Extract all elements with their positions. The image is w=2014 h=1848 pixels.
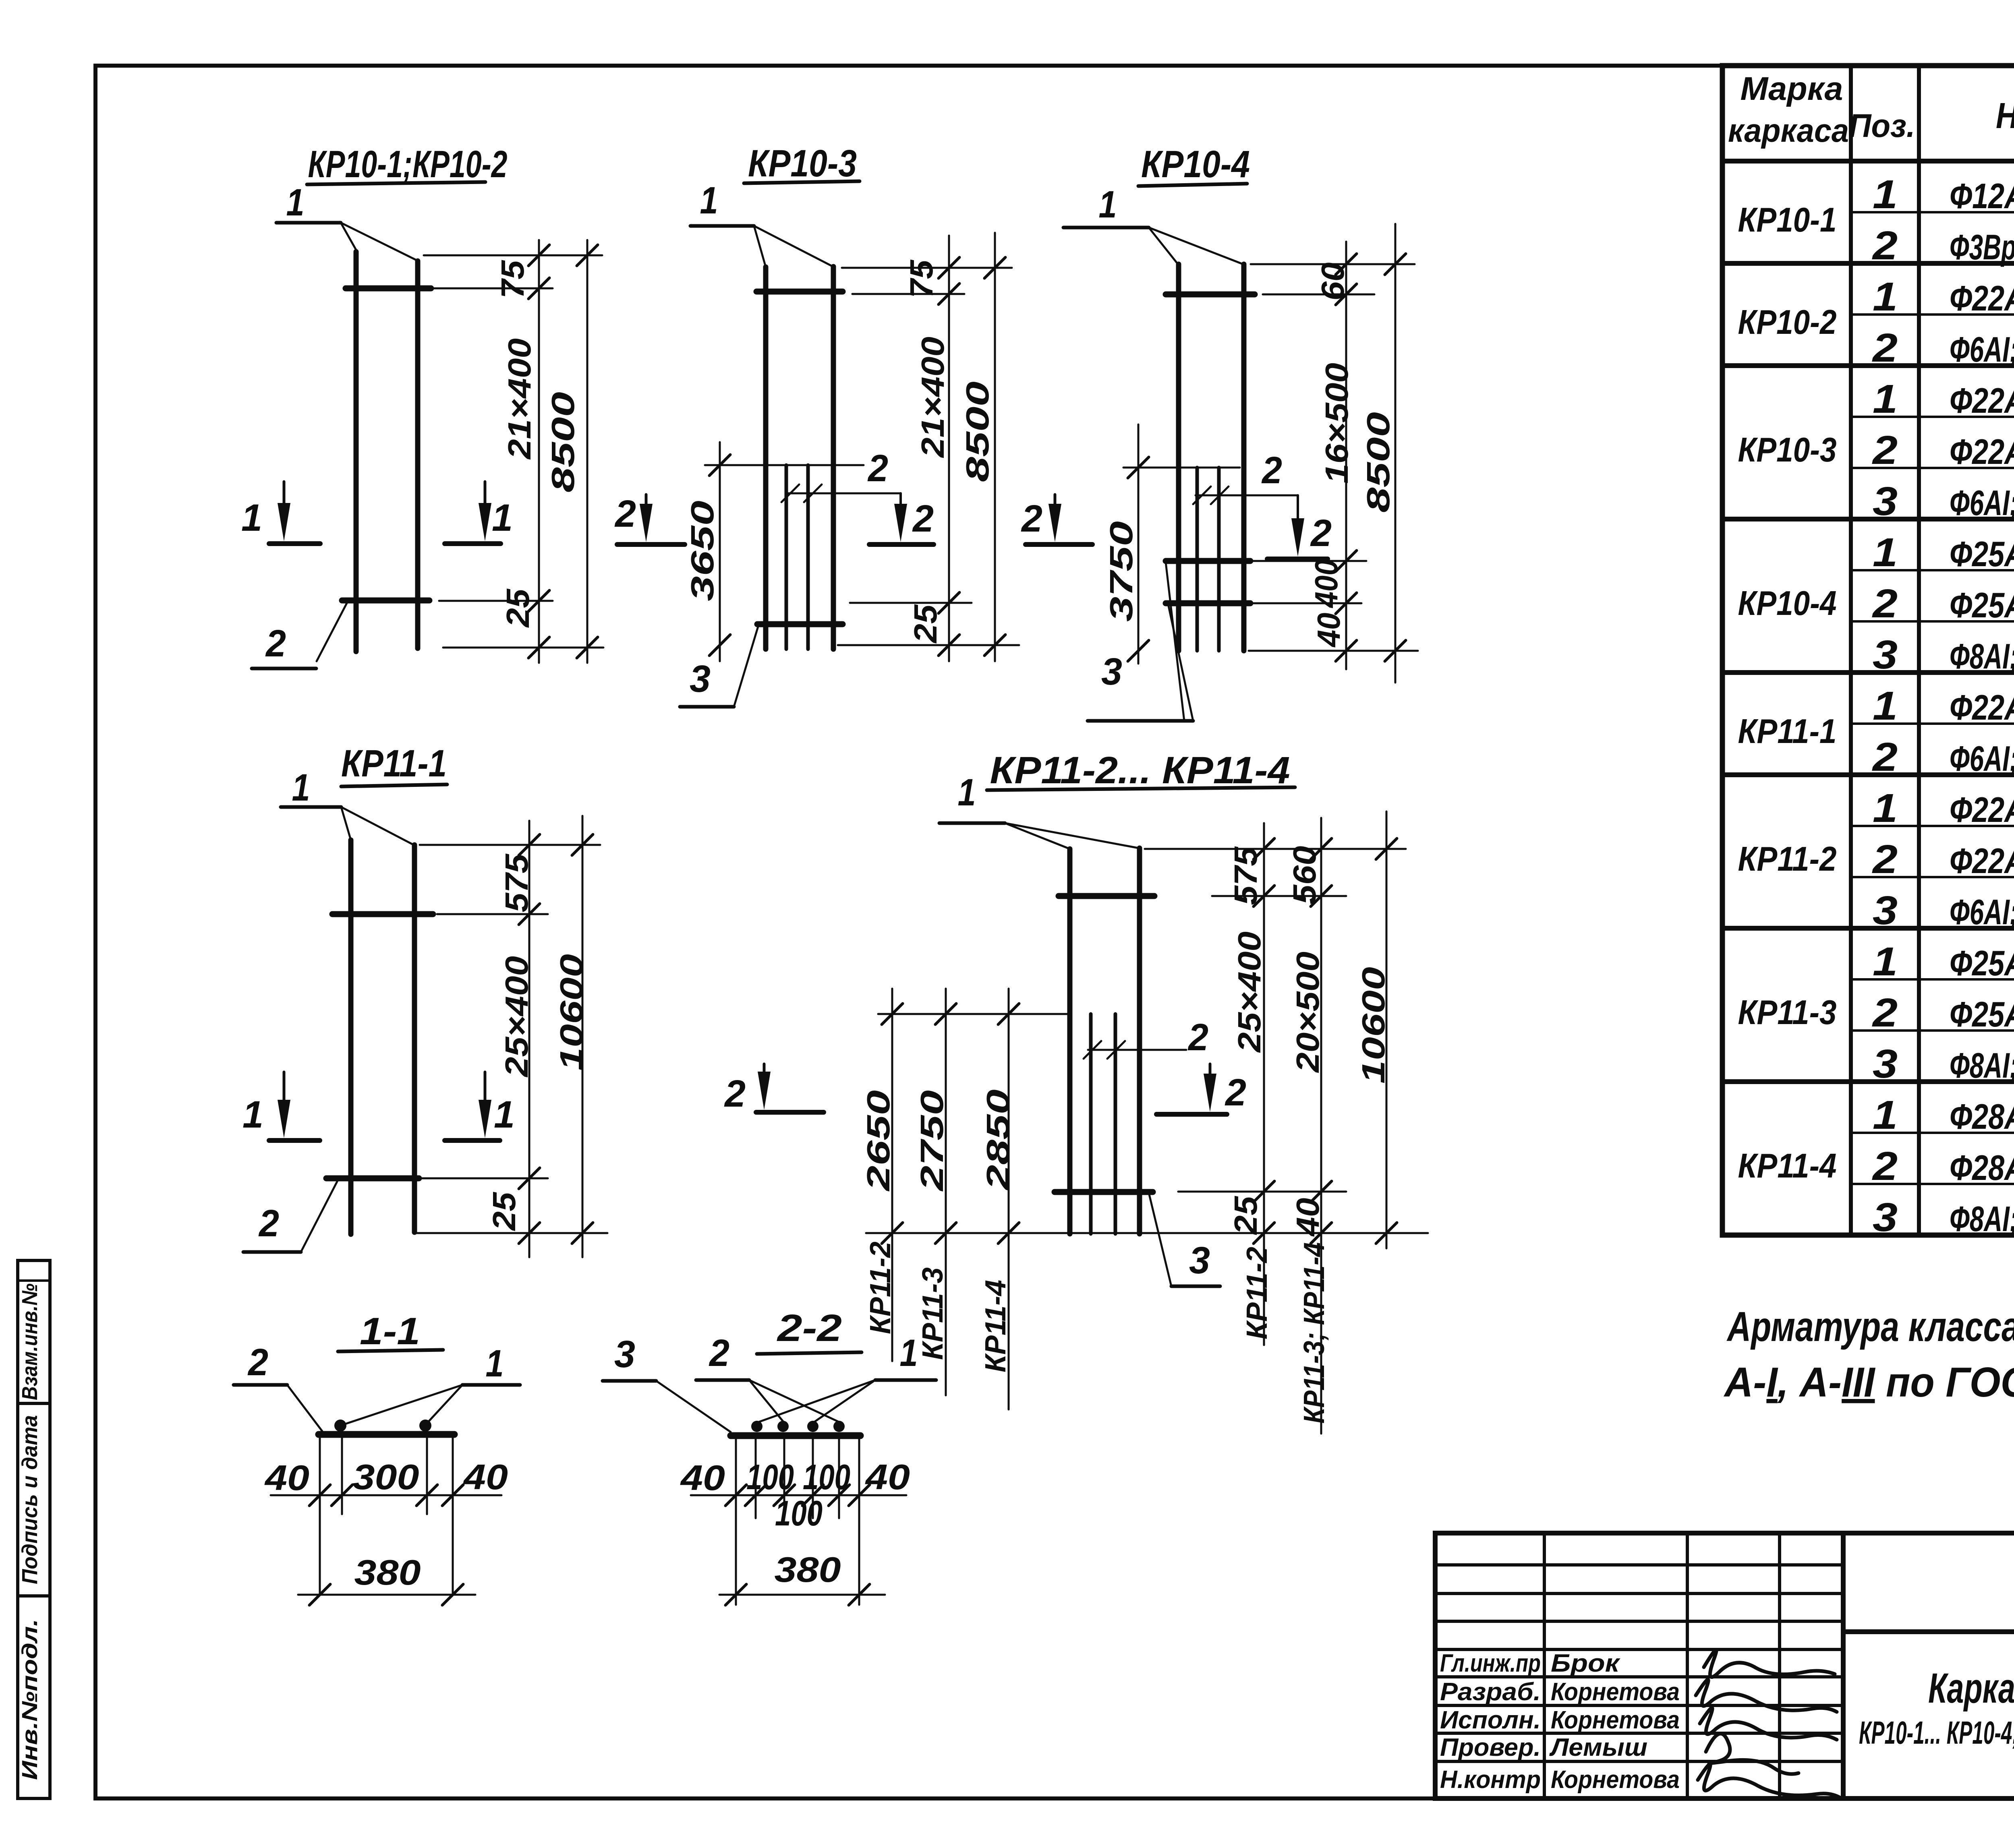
KR11-2 top crossbar pos3: [1059, 893, 1154, 899]
2-2 leader 1 line: [875, 1378, 936, 1382]
table row line: [1851, 313, 2014, 316]
svg-text:2: 2: [265, 622, 286, 665]
KR11-2 dim line 20x500: [1320, 818, 1322, 1434]
svg-text:КР10-4: КР10-4: [1738, 584, 1837, 623]
svg-text:2: 2: [1021, 497, 1042, 540]
KR10-4 top extensions: [1251, 263, 1415, 265]
svg-text:Ф28АIII;: Ф28АIII;: [1950, 1097, 2014, 1136]
KR10-3 pos2 leader line: [785, 493, 901, 495]
svg-text:Ф22АIII;: Ф22АIII;: [1950, 790, 2014, 830]
KR11-1 right bar pos1: [412, 845, 417, 1232]
1-1 dim line 40 300 40: [271, 1494, 501, 1496]
svg-text:Н.контр: Н.контр: [1440, 1766, 1541, 1794]
KR10-4 dim line 3750: [1138, 424, 1140, 664]
svg-text:21×400: 21×400: [501, 338, 537, 460]
svg-text:2: 2: [1872, 428, 1898, 473]
svg-text:1: 1: [492, 497, 513, 539]
svg-text:60: 60: [1315, 263, 1351, 301]
KR11-2 bottom extension long: [866, 1232, 1428, 1234]
KR11-1 leader 2 line: [243, 1250, 301, 1254]
section marker arrow: [283, 1072, 286, 1102]
svg-text:3: 3: [614, 1333, 635, 1376]
svg-text:КР11-4: КР11-4: [1738, 1147, 1837, 1185]
svg-text:КР11-3; КР11-4: КР11-3; КР11-4: [1298, 1242, 1330, 1424]
svg-text:3: 3: [1873, 1195, 1898, 1240]
table group separator: [1722, 772, 2014, 777]
svg-text:3: 3: [1873, 479, 1898, 524]
svg-text:Инв.№подл.: Инв.№подл.: [18, 1619, 42, 1780]
svg-text:Поз.: Поз.: [1849, 108, 1915, 144]
KR11-2 top right extension: [1145, 848, 1406, 850]
svg-text:Ф22АIII;: Ф22АIII;: [1950, 687, 2014, 727]
svg-text:1: 1: [241, 497, 262, 539]
svg-text:2: 2: [1872, 325, 1898, 370]
KR10-4 leader 1 diagonals: [1149, 228, 1179, 265]
svg-text:1: 1: [242, 1093, 263, 1136]
svg-text:3: 3: [1873, 1041, 1898, 1086]
section 2-2 underline: [757, 1352, 862, 1354]
table row line: [1851, 211, 2014, 213]
svg-text:75: 75: [495, 260, 530, 299]
2-2 dim line 380: [719, 1594, 885, 1596]
svg-text:10600: 10600: [553, 954, 589, 1071]
svg-text:КР10-2: КР10-2: [1738, 303, 1837, 341]
svg-text:Гл.инж.пр: Гл.инж.пр: [1440, 1649, 1541, 1677]
KR10-4 section 2 marker internal: [1297, 495, 1299, 520]
svg-text:Ф22АIII;: Ф22АIII;: [1950, 432, 2014, 472]
table outer border: [1722, 66, 2014, 1235]
2-2 extension verticals: [735, 1439, 737, 1605]
1-1 leader 2 line: [234, 1383, 287, 1387]
svg-text:1: 1: [700, 179, 718, 222]
table group separator: [1722, 1079, 2014, 1084]
svg-text:40: 40: [264, 1458, 309, 1498]
KR10-3 dim line 8500: [994, 233, 996, 661]
svg-text:Ф6АI;: Ф6АI;: [1950, 483, 2014, 523]
svg-text:400: 400: [1308, 559, 1344, 608]
svg-text:2: 2: [247, 1341, 268, 1384]
KR11-1 leader 1 diagonals: [341, 807, 351, 840]
KR10-1 dim ticks: [528, 245, 549, 266]
title block thick divider: [1841, 1533, 1846, 1798]
section marker line: [617, 542, 685, 547]
1-1 leader 2 diagonal: [287, 1385, 322, 1431]
KR11-2 pos2 leader line: [1088, 1049, 1186, 1051]
KR11-2 pos2 bar a: [1089, 1014, 1093, 1234]
KR11-2 left dim line 2650: [891, 989, 893, 1361]
svg-text:21×400: 21×400: [915, 337, 951, 458]
svg-text:1-1: 1-1: [360, 1310, 420, 1353]
svg-text:2850: 2850: [980, 1089, 1016, 1191]
svg-text:25: 25: [1228, 1196, 1264, 1235]
svg-text:КР11-2: КР11-2: [864, 1242, 897, 1334]
svg-text:Исполн.: Исполн.: [1440, 1706, 1541, 1734]
section 1-1 underline: [338, 1350, 443, 1351]
KR10-3 title underline: [744, 181, 860, 183]
KR11-1 dim line 10600: [582, 816, 584, 1257]
KR11-2 pos2 bar b: [1114, 1014, 1117, 1234]
table group separator: [1722, 926, 2014, 931]
2-2 crossbar pos3: [731, 1432, 860, 1439]
KR11-2 title underline: [987, 787, 1295, 790]
KR10-4 mesh top extension: [1123, 467, 1240, 469]
KR11-2 leader 3 line: [1171, 1285, 1220, 1288]
table group separator: [1722, 363, 2014, 368]
KR11-2 leader 1 line: [939, 822, 1005, 825]
svg-text:каркаса: каркаса: [1728, 112, 1849, 149]
svg-text:1: 1: [1873, 786, 1898, 831]
strip divider: [18, 1594, 50, 1598]
svg-text:Ф22АIII;: Ф22АIII;: [1950, 278, 2014, 318]
2-2 leader 3 diagonal: [656, 1381, 731, 1432]
table column lines: [1849, 66, 1853, 1235]
svg-text:25: 25: [500, 588, 536, 628]
svg-text:КР11-2... КР11-4: КР11-2... КР11-4: [990, 749, 1290, 792]
svg-text:2: 2: [1872, 735, 1898, 780]
svg-text:Ф8АI;: Ф8АI;: [1950, 1199, 2014, 1239]
KR10-1 title underline: [307, 182, 485, 184]
section marker arrow: [899, 506, 902, 508]
KR10-3 leader 3 line: [680, 705, 734, 709]
KR10-3 dim line 21x400: [948, 236, 950, 661]
svg-text:2: 2: [912, 497, 934, 540]
KR10-3 left bar pos1: [763, 267, 769, 649]
title block horizontal thick: [1843, 1629, 2014, 1634]
KR10-4 bottom crossbar 2 pos3: [1166, 600, 1250, 606]
svg-text:Ф25АIII;: Ф25АIII;: [1950, 994, 2014, 1034]
KR10-4 pos2 leader line: [1196, 495, 1298, 497]
KR10-1 leader 1 line: [276, 221, 341, 225]
section marker line: [445, 541, 501, 546]
svg-text:А-I, А-III по ГОСТ5781-82*: А-I, А-III по ГОСТ5781-82*: [1723, 1359, 2014, 1406]
section marker line: [1026, 542, 1092, 547]
KR11-2 left bar pos1: [1067, 849, 1073, 1234]
KR10-3 leader 3 diagonal: [734, 627, 758, 707]
table row line: [1851, 876, 2014, 878]
svg-text:380: 380: [354, 1552, 421, 1592]
KR11-1 bottom crossbar pos2: [326, 1175, 419, 1182]
svg-text:100: 100: [775, 1493, 823, 1533]
KR10-4 leader 3 diagonals: [1168, 604, 1193, 721]
svg-text:1: 1: [1873, 377, 1898, 422]
KR10-3 bottom crossbar pos3: [757, 621, 843, 627]
svg-text:380: 380: [775, 1550, 841, 1589]
table row line: [1851, 1029, 2014, 1032]
svg-text:Арматура класса Вр-I по ГОСТ6: Арматура класса Вр-I по ГОСТ6727-80*,: [1726, 1304, 2014, 1350]
section marker arrow: [484, 482, 487, 505]
table row line: [1851, 416, 2014, 418]
svg-text:КР11-1: КР11-1: [341, 742, 447, 785]
svg-text:16×500: 16×500: [1319, 363, 1355, 484]
KR10-3 section 2 marker internal: [899, 493, 902, 508]
KR11-2 dim line 10600: [1386, 811, 1388, 1248]
2-2 dim line 40 100 100 40: [691, 1494, 906, 1496]
KR10-4 left bar pos1: [1176, 264, 1181, 651]
table header bottom line: [1722, 159, 2014, 163]
KR10-1 leader 2 line: [252, 667, 316, 670]
KR10-1 dim line 8500: [586, 240, 588, 663]
KR10-1 dim line 21x400: [538, 240, 540, 663]
svg-text:1: 1: [494, 1093, 515, 1136]
svg-text:Разраб.: Разраб.: [1440, 1678, 1541, 1706]
svg-text:КР11-1: КР11-1: [1738, 712, 1837, 751]
2-2 leader 2 diagonals: [749, 1380, 784, 1422]
svg-text:1: 1: [1873, 530, 1898, 575]
svg-text:10600: 10600: [1355, 967, 1391, 1084]
1-1 dim line 380: [298, 1594, 475, 1596]
svg-text:2650: 2650: [860, 1090, 896, 1192]
svg-text:2: 2: [867, 447, 888, 490]
2-2 bar dot 2: [777, 1421, 789, 1432]
KR10-3 top extensions: [842, 267, 1012, 269]
2-2 leader 2 line: [696, 1378, 749, 1382]
svg-text:300: 300: [353, 1457, 419, 1497]
KR11-1 top crossbar pos2: [332, 911, 433, 917]
KR10-4 leader 1 line: [1063, 226, 1149, 230]
KR10-3 pos2 bar a: [785, 465, 788, 649]
svg-text:КР10-4: КР10-4: [1141, 143, 1250, 186]
svg-text:575: 575: [499, 853, 535, 913]
title block rows (left): [1435, 1563, 1843, 1567]
svg-text:КР11-3: КР11-3: [917, 1267, 949, 1360]
svg-text:КР10-3: КР10-3: [1738, 431, 1837, 469]
svg-text:Корнетова: Корнетова: [1551, 1706, 1680, 1734]
KR10-4 bottom extensions: [1254, 560, 1366, 562]
section marker line: [1267, 557, 1328, 561]
KR11-1 extension lines: [420, 844, 600, 846]
section marker arrow: [484, 1072, 487, 1102]
KR11-2 dim line 25x400: [1263, 823, 1265, 1345]
table group separator: [1722, 517, 2014, 521]
KR10-4 dim line 16x500: [1345, 242, 1347, 669]
KR11-1 leader 2 diagonal: [301, 1181, 338, 1252]
1-1 crossbar pos2: [319, 1431, 454, 1438]
svg-text:3: 3: [1873, 888, 1898, 933]
section marker arrow: [283, 482, 286, 505]
svg-text:1: 1: [286, 181, 305, 224]
KR10-3 leader 1 line: [690, 224, 754, 228]
KR10-3 bottom extensions: [850, 602, 972, 604]
svg-text:Марка: Марка: [1740, 70, 1843, 107]
svg-text:2750: 2750: [914, 1090, 950, 1192]
svg-text:Каркас плоский: Каркас плоский: [1928, 1665, 2014, 1712]
svg-text:25: 25: [908, 604, 943, 644]
svg-text:20×500: 20×500: [1290, 952, 1326, 1073]
svg-text:Корнетова: Корнетова: [1551, 1678, 1680, 1706]
KR11-2 crossbar extension: [1212, 895, 1346, 897]
svg-text:1: 1: [900, 1332, 918, 1374]
svg-text:Наименование: Наименование: [1996, 96, 2014, 136]
svg-text:40: 40: [865, 1457, 910, 1497]
section marker arrow: [1297, 520, 1299, 521]
strip divider: [18, 1402, 50, 1405]
svg-text:2: 2: [709, 1332, 729, 1374]
svg-text:1: 1: [1873, 939, 1898, 984]
KR10-4 pos2 bar a: [1196, 468, 1199, 651]
table group separator: [1722, 670, 2014, 675]
svg-text:Лемыш: Лемыш: [1549, 1734, 1647, 1761]
svg-text:2: 2: [724, 1072, 746, 1115]
section marker arrow: [1054, 495, 1057, 506]
2-2 bar dot 1: [751, 1421, 763, 1432]
svg-text:3: 3: [1189, 1239, 1210, 1282]
KR10-1 leader 2 diagonal: [317, 601, 348, 661]
svg-text:Ф6АI;: Ф6АI;: [1950, 329, 2014, 369]
2-2 bar dot 3: [807, 1421, 818, 1432]
svg-text:2: 2: [258, 1202, 279, 1245]
svg-text:1: 1: [1873, 683, 1898, 728]
svg-text:8500: 8500: [1360, 412, 1396, 513]
svg-text:Ф25АIII;: Ф25АIII;: [1950, 943, 2014, 983]
svg-text:Ф22АIII;: Ф22АIII;: [1950, 841, 2014, 881]
svg-text:Ф12АIII;: Ф12АIII;: [1950, 176, 2014, 216]
svg-text:2: 2: [1187, 1016, 1208, 1059]
KR10-4 title underline: [1138, 184, 1247, 186]
svg-text:1: 1: [1873, 1093, 1898, 1138]
KR10-3 dim line 3650: [719, 442, 721, 661]
KR10-1 top crossbar pos2: [346, 286, 431, 292]
2-2 leader 1 diagonals: [758, 1380, 875, 1422]
svg-text:2: 2: [614, 493, 636, 535]
KR11-1 dim line 25x400: [528, 821, 530, 1257]
KR10-3 mesh top extension: [705, 464, 864, 466]
table row line: [1851, 978, 2014, 981]
svg-text:2: 2: [1872, 223, 1898, 268]
svg-text:2: 2: [1225, 1071, 1246, 1114]
section marker arrow: [645, 495, 648, 506]
svg-text:40: 40: [1311, 613, 1347, 648]
svg-text:3: 3: [1873, 632, 1898, 677]
KR10-3 pos2 bar b: [806, 465, 810, 649]
KR10-4 top crossbar pos3: [1166, 292, 1255, 298]
table row line: [1851, 569, 2014, 571]
signature squiggles: [1704, 1650, 1835, 1677]
svg-text:25×400: 25×400: [1231, 931, 1267, 1053]
svg-text:2: 2: [1872, 837, 1898, 882]
KR10-4 leader 3 line: [1088, 719, 1193, 723]
svg-text:2: 2: [1310, 512, 1332, 555]
section marker line: [869, 542, 934, 547]
svg-text:КР10-1... КР10-4;КР11-1... КР1: КР10-1... КР10-4;КР11-1... КР11-4: [1859, 1715, 2014, 1751]
svg-text:40: 40: [463, 1457, 508, 1497]
svg-text:3650: 3650: [684, 501, 720, 601]
svg-text:Ф8АI;: Ф8АI;: [1950, 1045, 2014, 1085]
1-1 bar dot pos1 right: [419, 1420, 431, 1432]
svg-text:560: 560: [1287, 846, 1322, 904]
svg-text:Ф3ВрI;: Ф3ВрI;: [1950, 227, 2014, 267]
svg-text:КР11-2: КР11-2: [1241, 1247, 1273, 1339]
svg-text:Корнетова: Корнетова: [1551, 1766, 1680, 1794]
svg-text:25×400: 25×400: [499, 956, 535, 1078]
svg-text:2: 2: [1872, 990, 1898, 1035]
svg-text:Ф25АIII;: Ф25АIII;: [1950, 534, 2014, 574]
svg-text:100: 100: [746, 1457, 794, 1497]
svg-text:8500: 8500: [959, 381, 995, 482]
left margin strip: [18, 1260, 50, 1798]
svg-text:1: 1: [1873, 172, 1898, 217]
KR10-4 right bar pos1: [1241, 264, 1247, 651]
svg-text:40: 40: [680, 1458, 725, 1498]
svg-text:КР10-1;КР10-2: КР10-1;КР10-2: [308, 143, 508, 186]
KR11-2 right bar pos1: [1137, 848, 1142, 1234]
svg-text:1: 1: [1099, 183, 1117, 226]
section marker arrow: [1209, 1064, 1212, 1076]
svg-text:Ф22АIII;: Ф22АIII;: [1950, 381, 2014, 420]
table row line: [1851, 620, 2014, 623]
title block verticals left part: [1543, 1533, 1546, 1798]
svg-text:2: 2: [1261, 449, 1282, 492]
KR10-3 top crossbar pos3: [756, 289, 843, 295]
svg-text:3: 3: [1101, 650, 1122, 693]
section marker line: [1156, 1112, 1227, 1117]
svg-text:Подпись и дата: Подпись и дата: [18, 1415, 42, 1584]
svg-text:1: 1: [1873, 274, 1898, 319]
table group separator: [1722, 261, 2014, 266]
KR11-2 left dim line 2850: [1008, 989, 1010, 1409]
KR11-2 leader 1 diagonals: [1005, 823, 1070, 849]
KR10-1 extension lines: [424, 255, 602, 257]
KR11-2 bottom crossbar extension: [1178, 1191, 1346, 1193]
KR11-2 leader 3 diagonal: [1149, 1194, 1171, 1286]
svg-text:КР11-4: КР11-4: [980, 1280, 1012, 1372]
table row line: [1851, 467, 2014, 469]
section marker line: [269, 1138, 320, 1143]
table row line: [1851, 722, 2014, 725]
svg-text:Ф8АI;: Ф8АI;: [1950, 636, 2014, 676]
svg-text:75: 75: [903, 259, 939, 298]
svg-text:Ф28АIII;: Ф28АIII;: [1950, 1148, 2014, 1188]
table row line: [1851, 1183, 2014, 1185]
svg-text:Взам.инв.№: Взам.инв.№: [18, 1283, 42, 1400]
KR10-3 leader 1 diagonals: [754, 226, 766, 267]
svg-text:3: 3: [690, 658, 711, 700]
KR10-4 dim line 8500: [1394, 224, 1397, 683]
1-1 bar dot pos1 left: [334, 1420, 346, 1432]
KR10-1 right bar pos1: [415, 261, 421, 648]
1-1 leader 1 line: [462, 1383, 520, 1387]
KR10-3 right bar pos1: [831, 267, 836, 649]
svg-text:1: 1: [958, 771, 976, 814]
svg-text:40: 40: [1290, 1198, 1326, 1237]
svg-text:Ф6АI;: Ф6АI;: [1950, 739, 2014, 778]
KR10-4 bottom crossbar 1 pos3: [1166, 558, 1250, 564]
section marker line: [445, 1138, 500, 1143]
strip divider: [18, 1279, 50, 1282]
1-1 leader 1 diagonals: [346, 1385, 462, 1424]
svg-text:1: 1: [292, 766, 310, 809]
KR11-1 left bar pos1: [348, 840, 354, 1234]
svg-text:2-2: 2-2: [777, 1307, 842, 1349]
svg-text:КР11-3: КР11-3: [1738, 993, 1837, 1032]
svg-text:2: 2: [1872, 1144, 1898, 1189]
2-2 leader 3 line: [603, 1379, 656, 1383]
svg-text:2: 2: [1872, 581, 1898, 626]
KR11-1 title underline: [341, 784, 447, 786]
svg-text:Ф6АI;: Ф6АI;: [1950, 892, 2014, 932]
svg-text:8500: 8500: [545, 392, 581, 493]
KR10-1 leader 1 diagonals: [341, 223, 357, 251]
svg-text:1: 1: [486, 1342, 504, 1385]
title block outer: [1435, 1533, 2014, 1798]
table row line: [1851, 1132, 2014, 1134]
KR11-2 bottom crossbar pos3: [1055, 1189, 1153, 1195]
1-1 extension verticals: [319, 1438, 321, 1595]
svg-text:3750: 3750: [1103, 521, 1139, 622]
svg-text:Провер.: Провер.: [1440, 1734, 1541, 1761]
table row line: [1851, 825, 2014, 827]
KR11-2 mesh top extension: [878, 1013, 1069, 1015]
svg-text:КР10-3: КР10-3: [748, 142, 857, 185]
